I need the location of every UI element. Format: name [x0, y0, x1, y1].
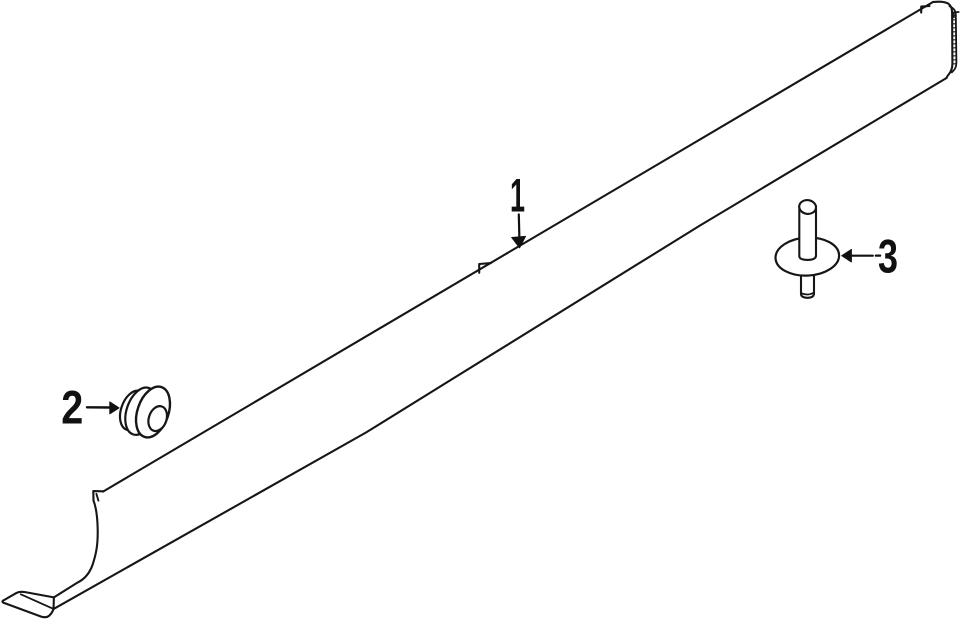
pin fastener P3 lower rod bottom inner arc — [801, 293, 814, 295]
pin fastener P3 flange ellipse — [775, 236, 841, 277]
label 3 arrowhead — [842, 249, 852, 262]
right end face hatching — [952, 16, 956, 64]
right end cap outline — [933, 2, 952, 78]
label 1 arrow shaft — [518, 215, 521, 239]
grommet C2 center hole ellipse — [145, 404, 170, 434]
label 3 arrow shaft dashed — [851, 255, 880, 257]
grommet C2 back flange ellipse — [115, 387, 152, 434]
label 2 arrowhead — [110, 402, 119, 414]
pin fastener P3 rod top cap ellipse — [798, 199, 817, 215]
label 1 arrowhead — [512, 236, 526, 247]
label 2 arrow shaft — [87, 406, 110, 409]
pin fastener P3 upper rod — [799, 206, 816, 260]
svg-text:2: 2 — [61, 381, 83, 434]
right end small tab — [954, 12, 959, 17]
foot flap crease line — [21, 594, 53, 608]
left end top step notch — [93, 491, 103, 500]
left end front S-curve edge — [54, 501, 98, 598]
left end tab inner diagonal — [96, 494, 98, 501]
bottom-left foot flap outline — [2, 592, 53, 617]
notch tab A on top edge near label 1 — [479, 263, 491, 273]
right end cap outer edge line — [950, 6, 957, 72]
grommet C2 front face ellipse — [130, 382, 176, 442]
grommet C2 middle ring ellipse — [120, 383, 163, 439]
notch tab B near right end of top edge — [921, 6, 929, 13]
rocker molding panel P1 top edge — [103, 2, 933, 492]
svg-text:1: 1 — [510, 169, 525, 222]
molding bottom edge — [54, 78, 947, 609]
pin fastener P3 lower rod — [801, 270, 814, 298]
